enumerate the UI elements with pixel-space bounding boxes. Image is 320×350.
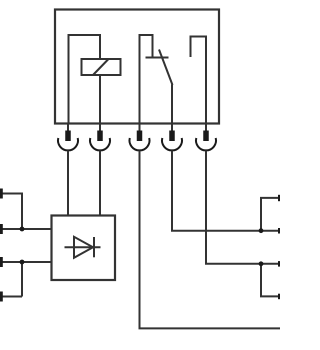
diode box: [52, 216, 116, 281]
right edge terminal 2: [278, 228, 280, 234]
left edge terminal 1: [0, 189, 3, 199]
diode cathode bar: [93, 237, 95, 257]
terminal T4 pin: [169, 131, 175, 142]
wire T2 to diode box: [99, 151, 101, 216]
terminal T5 socket arc: [196, 138, 216, 150]
terminal T1 socket arc: [58, 138, 78, 150]
wire T5 to right: [206, 151, 280, 264]
left input wire 1: [0, 194, 22, 230]
left input wire 4 jumper: [21, 262, 23, 297]
junction left B: [20, 260, 25, 265]
terminal T2 pin: [97, 131, 103, 142]
coil slash: [93, 59, 109, 75]
left input wire 3: [0, 261, 52, 263]
diode D1 triangle: [74, 237, 93, 258]
relay module box: [55, 10, 219, 124]
wire T4 to right: [172, 151, 280, 231]
terminal T2 socket arc: [90, 138, 110, 150]
relay coil K1: [82, 59, 121, 75]
NC fixed contact bar: [146, 57, 169, 59]
right branch lower: [261, 264, 280, 297]
terminal T5 wire stub: [205, 124, 207, 131]
junction right A: [259, 228, 264, 233]
terminal T3 pin: [137, 131, 143, 142]
left edge terminal 3: [0, 257, 3, 267]
junction left A: [20, 227, 25, 232]
diode wire: [65, 246, 101, 248]
left input wire 4: [0, 296, 22, 298]
wire coil to terminal 2: [99, 75, 101, 124]
terminal T3 wire stub: [139, 124, 141, 131]
terminal T4 wire stub: [171, 124, 173, 131]
terminal T1 wire stub: [67, 124, 69, 131]
wire coil feed from terminal 1: [69, 35, 101, 124]
right edge terminal 4: [278, 294, 280, 300]
terminal T1 pin: [65, 131, 71, 142]
wire T3 common to right edge bottom: [140, 151, 281, 329]
left edge terminal 4: [0, 292, 3, 302]
right edge terminal 3: [278, 261, 280, 267]
terminal T3 socket arc: [130, 138, 150, 150]
wire T1 to diode box: [67, 151, 69, 216]
NO fixed contact to terminal 5: [191, 37, 207, 124]
terminal T5 pin: [203, 131, 209, 142]
terminal T2 wire stub: [99, 124, 101, 131]
junction right B: [259, 261, 264, 266]
terminal T4 socket arc: [162, 138, 182, 150]
left input wire 2: [0, 228, 52, 230]
wire NC contact from terminal 3: [140, 35, 153, 124]
wire common pole to terminal 4: [171, 85, 173, 124]
switch lever: [159, 50, 173, 86]
right branch upper: [261, 198, 280, 231]
right edge terminal 1: [278, 195, 280, 201]
left edge terminal 2: [0, 224, 3, 234]
